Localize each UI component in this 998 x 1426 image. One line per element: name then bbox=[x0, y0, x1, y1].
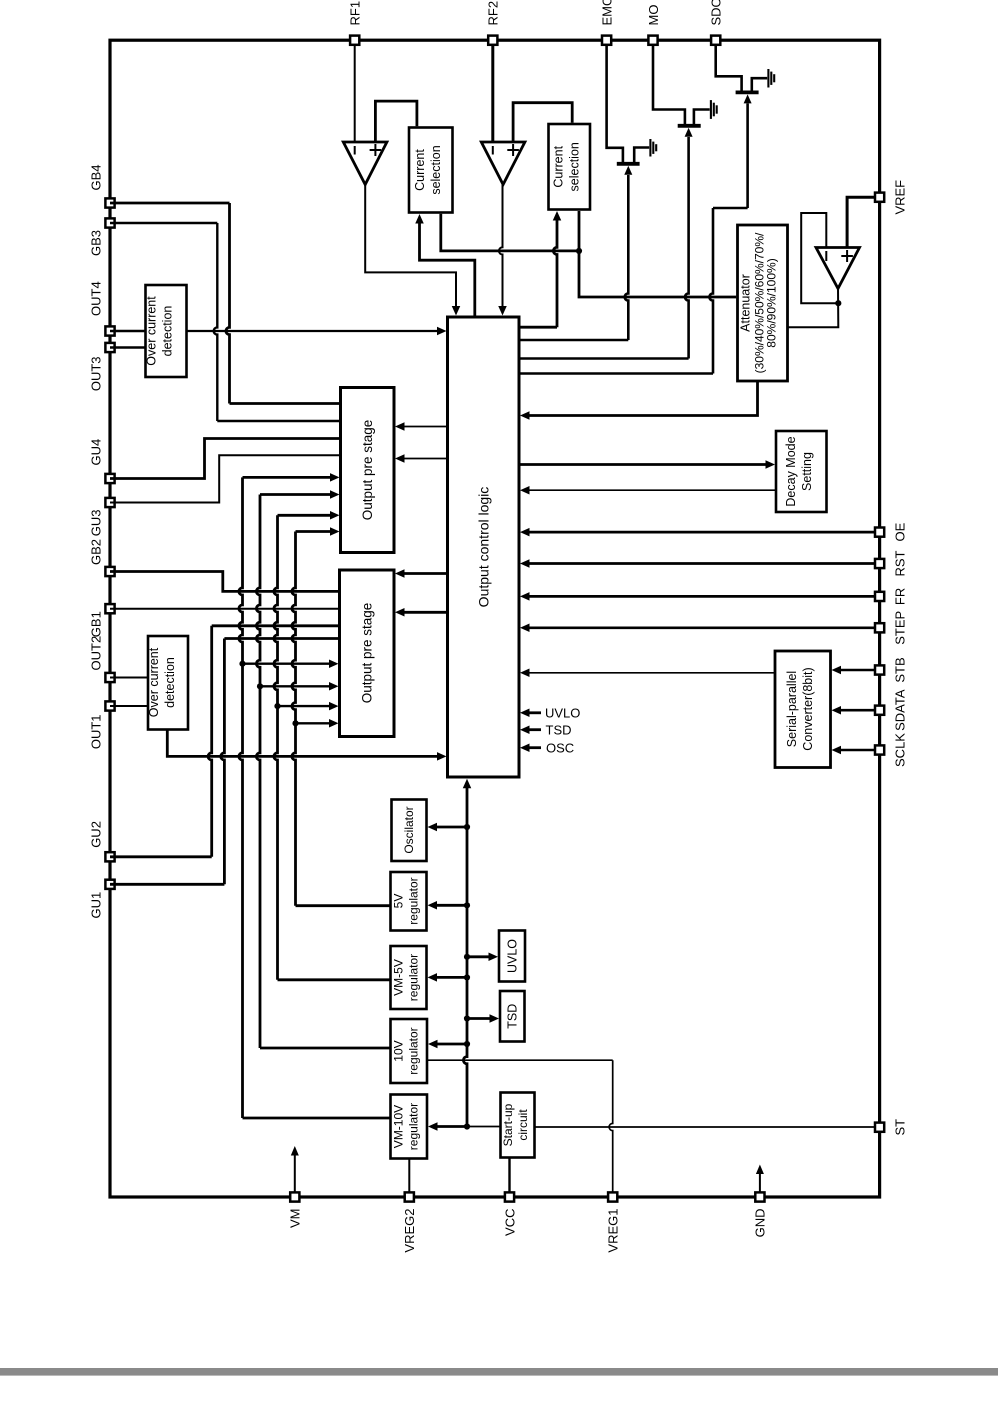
pin FR bbox=[875, 592, 884, 601]
arrowhead into TSD bbox=[490, 1014, 500, 1023]
svg-text:Over current: Over current bbox=[147, 647, 161, 717]
arrowhead STEP into OCL bbox=[520, 624, 530, 633]
pin STEP bbox=[875, 623, 884, 632]
svg-text:EMO: EMO bbox=[600, 0, 615, 26]
arrowhead net D into pre-stage2 bbox=[329, 719, 339, 728]
junction dot TSD branch bbox=[464, 1015, 470, 1021]
wire net C branch to pre-stage2 bbox=[278, 705, 331, 707]
pin GU3 bbox=[105, 498, 114, 507]
wire OUT2 pin to OCD2 bbox=[110, 677, 148, 679]
start-up circuit block U-SU bbox=[501, 1093, 535, 1158]
arrowhead SCLK into SPC bbox=[832, 746, 842, 755]
arrowhead into pre-stage1 lower bbox=[395, 454, 405, 463]
output pre stage block U-PS2 bbox=[340, 570, 395, 737]
10V regulator block U-REG10 bbox=[391, 1019, 428, 1083]
wire RF2 pin to CMP2 minus input bbox=[491, 45, 494, 143]
pin GU1 bbox=[105, 880, 114, 889]
pin VM bbox=[290, 1192, 299, 1201]
wire STB pin to SPC bbox=[840, 669, 875, 672]
transistor Q1 gate arrow bbox=[624, 166, 632, 175]
wire OCL to CS1 feed bbox=[420, 222, 475, 316]
power net riser to OCL bottom bbox=[463, 786, 467, 1127]
minus input mark CMP2 bbox=[492, 146, 494, 155]
svg-text:OUT3: OUT3 bbox=[89, 357, 104, 392]
pin OUT2 bbox=[105, 673, 114, 682]
wire net A branch to pre-stage2 bbox=[243, 663, 331, 665]
pin GU2 bbox=[105, 852, 114, 861]
pin OE bbox=[875, 528, 884, 537]
wire start-up circuit to ST pin bbox=[535, 1126, 875, 1128]
riser net B to pre-stage1 arrow bbox=[256, 495, 260, 1049]
wire MO pin to transistor Q2 drain bbox=[653, 46, 685, 124]
wire STEP pin to OCL bbox=[529, 626, 875, 629]
arrowhead into CS1 bottom bbox=[415, 214, 424, 224]
junction dot 10V regulator branch bbox=[464, 1041, 470, 1047]
svg-text:GU4: GU4 bbox=[89, 439, 104, 466]
junction dot net C branch bbox=[274, 703, 280, 709]
pin MO bbox=[648, 36, 657, 45]
TSD internal signal into OCL bbox=[529, 728, 542, 731]
svg-text:VM-10V: VM-10V bbox=[392, 1105, 406, 1148]
svg-text:TSD: TSD bbox=[506, 1004, 520, 1029]
arrowhead net A into pre-stage1 bbox=[330, 473, 340, 482]
current selection block U-CS1 bbox=[409, 128, 453, 213]
svg-text:UVLO: UVLO bbox=[506, 939, 520, 973]
wire decay mode setting to OCL bbox=[529, 489, 777, 491]
arrowhead RST into OCL bbox=[520, 559, 530, 568]
wire CMP1 output to OCL top bbox=[365, 185, 456, 307]
arrowhead into pre-stage1 upper bbox=[395, 422, 405, 431]
arrowhead into pre-stage2 lower bbox=[395, 608, 405, 617]
plus input mark CMP1 bbox=[374, 144, 376, 156]
arrowhead UVLO into OCL bbox=[520, 709, 530, 718]
svg-text:regulator: regulator bbox=[407, 1027, 421, 1074]
pin RF2 bbox=[488, 36, 497, 45]
pin VREG1 bbox=[608, 1192, 617, 1201]
comparator CMP2 for RF2 bbox=[481, 142, 525, 185]
arrowhead into UVLO bbox=[489, 953, 499, 962]
arrowhead FR into OCL bbox=[520, 592, 530, 601]
svg-text:RF1: RF1 bbox=[348, 1, 363, 26]
wire GU4 pin to pre-stage1 bbox=[110, 439, 341, 479]
svg-text:VREF: VREF bbox=[893, 180, 908, 215]
wire branch to VM-5V regulator bbox=[436, 976, 468, 979]
svg-text:VCC: VCC bbox=[502, 1209, 517, 1236]
comparator CMP1 for RF1 bbox=[343, 142, 387, 185]
wire GU3 pin to pre-stage1 bbox=[110, 455, 341, 502]
ground symbol at Q1 bbox=[649, 139, 651, 157]
pin GB1 bbox=[105, 604, 114, 613]
wire CMP1 plus input from CS1 bbox=[375, 101, 417, 143]
pin GU4 bbox=[105, 474, 114, 483]
svg-text:regulator: regulator bbox=[407, 877, 421, 924]
arrowhead SDATA into SPC bbox=[832, 706, 842, 715]
plus input mark VREF op-amp bbox=[846, 250, 848, 262]
wire OCL to pre-stage1 lower bbox=[404, 458, 448, 460]
pin GB2 bbox=[105, 567, 114, 576]
pin ST bbox=[875, 1123, 884, 1132]
pin RF1 bbox=[350, 36, 359, 45]
wire EMO pin to transistor Q1 drain bbox=[607, 46, 623, 162]
wire OCL to pre-stage2 lower bbox=[404, 611, 448, 614]
arrowhead OSC into OCL bbox=[520, 743, 530, 752]
wire SDATA pin to SPC bbox=[840, 709, 875, 712]
wire OUT1 pin to OCD2 bbox=[110, 705, 148, 707]
svg-text:Converter(8bit): Converter(8bit) bbox=[801, 667, 815, 750]
wire GU1 pin to pre-stage2 bbox=[110, 883, 224, 886]
junction dot net A branch bbox=[239, 661, 245, 667]
wire branch to TSD bbox=[467, 1017, 492, 1020]
OSC internal signal into OCL bbox=[529, 746, 542, 749]
arrowhead OCD2 into OCL left bbox=[437, 752, 447, 761]
wire VCC pin to start-up circuit bbox=[508, 1158, 510, 1193]
wire OCD1 output to OCL bbox=[187, 330, 439, 332]
svg-text:VREG2: VREG2 bbox=[402, 1209, 417, 1253]
svg-text:Output pre stage: Output pre stage bbox=[360, 420, 375, 521]
wire attenuator output to OCL bbox=[529, 381, 758, 416]
oscillator block U-OSC bbox=[392, 800, 427, 862]
svg-text:5V: 5V bbox=[392, 894, 406, 909]
junction dot current bus at CS2 bbox=[576, 248, 582, 254]
pin GB3 bbox=[105, 218, 114, 227]
arrowhead net B into pre-stage1 bbox=[330, 490, 340, 499]
pin VREF bbox=[875, 193, 884, 202]
svg-text:FR: FR bbox=[893, 588, 908, 605]
wire OE pin to OCL bbox=[529, 531, 875, 534]
VM-5V regulator block U-REGVM5 bbox=[391, 946, 427, 1009]
junction dot net D branch bbox=[292, 720, 298, 726]
output control logic block U-OCL bbox=[448, 317, 520, 777]
svg-text:Attenuator: Attenuator bbox=[739, 274, 753, 332]
arrowhead net D into pre-stage1 bbox=[330, 527, 340, 536]
wire net C to VM-5V regulator bbox=[278, 978, 391, 981]
pin GB4 bbox=[105, 198, 114, 207]
wire OCL to Q1 gate riser bbox=[519, 339, 628, 341]
svg-text:OE: OE bbox=[893, 522, 908, 541]
arrowhead CMP2 output into OCL bbox=[498, 306, 507, 316]
svg-text:Current: Current bbox=[552, 145, 566, 187]
output pre stage block U-PS1 bbox=[341, 388, 395, 553]
wire GB1 pin to pre-stage2 bbox=[110, 608, 340, 610]
svg-text:STEP: STEP bbox=[893, 611, 908, 645]
svg-text:VM: VM bbox=[288, 1209, 303, 1229]
pin OUT4 bbox=[105, 326, 114, 335]
svg-text:OUT1: OUT1 bbox=[89, 715, 104, 750]
svg-text:Serial-parallel: Serial-parallel bbox=[785, 671, 799, 747]
wire OUT4 pin to OCD1 bbox=[110, 330, 146, 332]
pin VREG2 bbox=[405, 1192, 414, 1201]
svg-text:10V: 10V bbox=[392, 1040, 406, 1061]
svg-text:Oscilator: Oscilator bbox=[402, 806, 416, 853]
svg-text:Start-up: Start-up bbox=[501, 1103, 515, 1146]
pin SCLK bbox=[875, 745, 884, 754]
UVLO internal signal into OCL bbox=[529, 711, 542, 714]
junction dot op-amp feedback bbox=[835, 300, 841, 306]
wire VREF op-amp output to attenuator bbox=[789, 287, 839, 327]
pin VCC bbox=[505, 1192, 514, 1201]
wire GB3 pin to pre-stage1 bbox=[110, 222, 217, 224]
arrowhead into VM-10V regulator bbox=[428, 1122, 438, 1131]
wire 10V regulator output to VREG1 pin bbox=[427, 1059, 613, 1061]
VM-10V regulator block U-REGVM10 bbox=[391, 1095, 428, 1159]
svg-text:MO: MO bbox=[646, 5, 661, 26]
TSD block bbox=[500, 991, 525, 1042]
svg-text:Setting: Setting bbox=[800, 452, 814, 491]
svg-text:80%/90%/100%): 80%/90%/100%) bbox=[765, 258, 779, 347]
junction dot oscillator branch bbox=[464, 824, 470, 830]
wire CS2 bottom through junction to attenuator bus bbox=[579, 211, 736, 297]
wire FR pin to OCL bbox=[529, 595, 875, 598]
pin SDO bbox=[711, 36, 720, 45]
arrowhead into decay mode setting bbox=[766, 460, 776, 469]
svg-text:Current: Current bbox=[413, 149, 427, 191]
riser net A to pre-stage1 arrow bbox=[239, 477, 243, 1118]
wire branch to VM-10V regulator bbox=[436, 1125, 467, 1128]
wire SCLK pin to SPC bbox=[840, 749, 875, 752]
arrowhead TSD into OCL bbox=[520, 725, 530, 734]
wire serial-parallel converter to OCL bbox=[529, 672, 776, 674]
VM supply arrow bbox=[294, 1152, 296, 1192]
pin OUT3 bbox=[105, 343, 114, 352]
svg-text:GB3: GB3 bbox=[89, 230, 104, 256]
pin EMO bbox=[602, 36, 611, 45]
ground symbol at Q3 bbox=[767, 69, 769, 88]
decay mode setting block U-DMS bbox=[776, 431, 827, 512]
wire OCL to Q2 gate riser bbox=[519, 357, 689, 359]
over current detection block U-OCD1 bbox=[146, 285, 187, 377]
junction dot power node at start-up bbox=[464, 1123, 470, 1129]
wire GB4 pin to pre-stage1 bbox=[110, 202, 230, 205]
arrowhead SPC into OCL bbox=[520, 669, 530, 678]
wire power node to start-up circuit bbox=[467, 1126, 501, 1128]
footer divider bar bbox=[0, 1368, 998, 1376]
svg-text:UVLO: UVLO bbox=[545, 705, 580, 720]
arrowhead CMP1 output into OCL bbox=[452, 306, 461, 316]
pin STB bbox=[875, 665, 884, 674]
arrowhead into VM-5V regulator bbox=[428, 973, 438, 982]
svg-text:OUT2: OUT2 bbox=[89, 636, 104, 671]
arrowhead OCD1 into OCL left bbox=[437, 327, 447, 336]
arrowhead decay return into OCL bbox=[520, 486, 530, 495]
wire OUT3 pin to OCD1 bbox=[110, 346, 146, 348]
svg-text:OSC: OSC bbox=[546, 740, 574, 755]
wire branch to UVLO bbox=[467, 955, 491, 958]
wire VREG2 pin to VM-10V regulator bbox=[408, 1159, 410, 1193]
outer border frame of IC block diagram bbox=[110, 40, 880, 1197]
minus input mark CMP1 bbox=[354, 146, 356, 155]
pin OUT1 bbox=[105, 701, 114, 710]
svg-text:VREG1: VREG1 bbox=[606, 1209, 621, 1253]
wire net A to VM-10V regulator bbox=[243, 1117, 391, 1120]
svg-text:regulator: regulator bbox=[407, 1103, 421, 1150]
transistor Q2 gate arrow bbox=[685, 128, 693, 137]
svg-text:Decay Mode: Decay Mode bbox=[784, 436, 798, 506]
transistor Q3 channel bar bbox=[736, 91, 759, 95]
wire branch to 5V regulator bbox=[436, 904, 468, 907]
svg-text:selection: selection bbox=[568, 142, 582, 191]
svg-text:SDO: SDO bbox=[709, 0, 724, 26]
wire OCD2 output to OCL bbox=[167, 730, 438, 757]
svg-text:GND: GND bbox=[753, 1209, 768, 1238]
arrowhead OE into OCL bbox=[520, 528, 530, 537]
wire CMP2 plus input from CS2 bbox=[513, 103, 572, 143]
svg-text:OUT4: OUT4 bbox=[89, 281, 104, 316]
wire net D branch to pre-stage2 bbox=[296, 722, 331, 724]
svg-text:RST: RST bbox=[893, 550, 908, 576]
svg-text:GB4: GB4 bbox=[89, 164, 104, 190]
wire net D to 5V regulator bbox=[296, 904, 391, 907]
minus input mark VREF op-amp bbox=[825, 251, 827, 261]
arrowhead power riser into OCL bottom bbox=[463, 779, 472, 789]
riser net D to pre-stage1 arrow bbox=[292, 532, 296, 906]
junction dot net B branch bbox=[257, 683, 263, 689]
junction dot 5V regulator branch bbox=[464, 902, 470, 908]
arrowhead net C into pre-stage2 bbox=[329, 702, 339, 711]
wire GU2 pin to pre-stage2 bbox=[110, 855, 212, 858]
wire Q1 source to ground bbox=[634, 148, 649, 163]
svg-text:SCLK: SCLK bbox=[893, 733, 908, 767]
svg-text:detection: detection bbox=[161, 306, 175, 357]
svg-text:GB1: GB1 bbox=[89, 611, 104, 637]
op-amp U-VREF buffer bbox=[816, 248, 860, 289]
wire OCL to decay mode setting bbox=[519, 463, 767, 466]
wire CS1 bottom to current bus bbox=[441, 214, 578, 251]
ground symbol at Q2 bbox=[710, 100, 712, 119]
svg-text:SDATA: SDATA bbox=[893, 689, 908, 731]
arrowhead into pre-stage2 upper bbox=[395, 569, 405, 578]
svg-text:Over current: Over current bbox=[145, 296, 159, 366]
transistor Q3 gate arrow bbox=[744, 94, 752, 103]
junction dot VM-5V branch bbox=[464, 974, 470, 980]
svg-text:STB: STB bbox=[893, 657, 908, 682]
arrowhead STB into SPC bbox=[832, 666, 842, 675]
svg-text:circuit: circuit bbox=[516, 1109, 530, 1141]
svg-text:GU1: GU1 bbox=[89, 892, 104, 919]
wire RST pin to OCL bbox=[529, 562, 875, 565]
wire OCL to pre-stage2 upper bbox=[404, 572, 448, 575]
wire SDO pin to transistor Q3 drain bbox=[716, 46, 742, 91]
over current detection block U-OCD2 bbox=[148, 636, 188, 730]
pin SDATA bbox=[875, 706, 884, 715]
wire Q2 source to ground bbox=[694, 110, 710, 125]
wire OCL to pre-stage1 upper bbox=[404, 426, 448, 428]
attenuator block U-ATT bbox=[738, 225, 788, 381]
svg-text:RF2: RF2 bbox=[486, 1, 501, 26]
wire VREF pin to op-amp plus input bbox=[847, 197, 875, 246]
wire branch to 10V regulator bbox=[436, 1043, 467, 1046]
arrowhead into oscillator bbox=[428, 823, 438, 832]
UVLO block bbox=[499, 931, 525, 982]
arrowhead into 5V regulator bbox=[428, 901, 438, 910]
wire net B branch to pre-stage2 bbox=[260, 685, 330, 687]
wire OCL to CS2 feed riser bbox=[519, 326, 557, 329]
svg-text:Output pre stage: Output pre stage bbox=[360, 603, 375, 704]
wire RF1 pin to CMP1 minus input bbox=[354, 45, 356, 143]
5V regulator block U-REG5 bbox=[391, 872, 427, 931]
svg-text:ST: ST bbox=[893, 1119, 908, 1136]
svg-text:detection: detection bbox=[163, 657, 177, 708]
plus input mark CMP2 bbox=[512, 144, 514, 156]
wire OCL to Q3 gate riser bbox=[519, 372, 713, 374]
svg-text:TSD: TSD bbox=[546, 722, 572, 737]
transistor Q1 channel bar bbox=[617, 162, 640, 166]
svg-text:selection: selection bbox=[429, 145, 443, 194]
current selection block U-CS2 bbox=[549, 124, 591, 210]
wire CMP2 output to OCL top bbox=[499, 185, 503, 307]
arrowhead into CS2 bottom bbox=[553, 211, 562, 221]
riser net C to pre-stage1 arrow bbox=[274, 515, 278, 980]
arrowhead net B into pre-stage2 bbox=[329, 682, 339, 691]
wire branch to oscillator bbox=[436, 826, 468, 829]
junction dot UVLO branch bbox=[464, 954, 470, 960]
svg-text:GU2: GU2 bbox=[89, 821, 104, 848]
svg-text:VM-5V: VM-5V bbox=[392, 959, 406, 996]
GND stub arrow bbox=[759, 1171, 761, 1193]
svg-text:GB2: GB2 bbox=[89, 539, 104, 565]
transistor Q2 channel bar bbox=[678, 124, 701, 128]
wire GB2 pin to pre-stage2 bbox=[110, 572, 340, 592]
wire VREF op-amp feedback bbox=[801, 213, 836, 303]
svg-text:GU3: GU3 bbox=[89, 510, 104, 537]
pin RST bbox=[875, 559, 884, 568]
wire net B to 10V regulator bbox=[260, 1047, 391, 1050]
arrowhead attenuator into OCL right bbox=[520, 411, 530, 420]
arrowhead net A into pre-stage2 bbox=[329, 659, 339, 668]
svg-text:regulator: regulator bbox=[407, 954, 421, 1001]
arrowhead net C into pre-stage1 bbox=[330, 511, 340, 520]
arrowhead into 10V regulator bbox=[428, 1040, 438, 1049]
wire Q3 source to ground bbox=[752, 78, 767, 91]
serial-parallel converter block U-SPC bbox=[775, 651, 831, 768]
pin GND bbox=[755, 1192, 764, 1201]
svg-text:Output control logic: Output control logic bbox=[476, 487, 492, 608]
